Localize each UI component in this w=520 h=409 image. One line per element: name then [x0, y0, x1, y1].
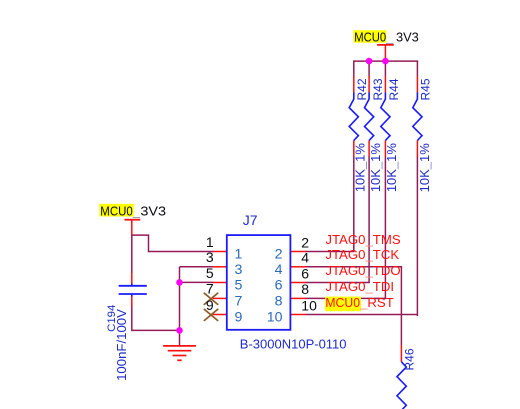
- svg-text:9: 9: [206, 297, 214, 313]
- svg-text:_: _: [385, 30, 394, 44]
- svg-text:MCU0: MCU0: [325, 295, 360, 310]
- svg-text:4: 4: [301, 250, 309, 266]
- svg-text:10K_1%: 10K_1%: [417, 143, 432, 193]
- svg-text:10K_1%: 10K_1%: [368, 143, 383, 193]
- svg-text:R44: R44: [387, 78, 401, 100]
- svg-text:7: 7: [206, 281, 214, 297]
- svg-text:B-3000N10P-0110: B-3000N10P-0110: [240, 337, 347, 352]
- svg-text:5: 5: [206, 265, 214, 281]
- svg-text:8: 8: [301, 281, 309, 297]
- svg-text:1: 1: [206, 234, 214, 250]
- svg-text:6: 6: [275, 278, 283, 294]
- svg-text:100nF/100V: 100nF/100V: [114, 309, 129, 381]
- svg-text:2: 2: [301, 234, 309, 250]
- svg-text:1: 1: [235, 247, 243, 263]
- svg-text:3: 3: [235, 262, 243, 278]
- svg-text:R46: R46: [402, 348, 416, 370]
- svg-text:JTAG0_TDO: JTAG0_TDO: [325, 263, 400, 278]
- svg-text:4: 4: [275, 262, 283, 278]
- svg-text:MCU0: MCU0: [100, 204, 132, 218]
- svg-text:JTAG0_TMS: JTAG0_TMS: [325, 232, 400, 247]
- svg-text:3: 3: [206, 249, 214, 265]
- svg-text:7: 7: [235, 294, 243, 310]
- svg-text:2: 2: [275, 247, 283, 263]
- svg-text:RST: RST: [367, 295, 393, 310]
- svg-text:3V3: 3V3: [140, 204, 166, 218]
- svg-text:10: 10: [267, 310, 283, 326]
- svg-text:8: 8: [275, 294, 283, 310]
- svg-text:J7: J7: [243, 212, 258, 228]
- svg-text:JTAG0_TDI: JTAG0_TDI: [325, 279, 394, 294]
- svg-text:5: 5: [235, 278, 243, 294]
- svg-text:R42: R42: [355, 78, 369, 100]
- svg-text:3V3: 3V3: [396, 30, 419, 44]
- svg-text:10: 10: [301, 297, 317, 313]
- svg-text:10K_1%: 10K_1%: [353, 143, 368, 193]
- svg-text:6: 6: [301, 265, 309, 281]
- svg-text:JTAG0_TCK: JTAG0_TCK: [325, 247, 399, 262]
- svg-text:R43: R43: [371, 78, 385, 100]
- svg-text:10K_1%: 10K_1%: [384, 143, 399, 193]
- svg-text:R45: R45: [419, 78, 433, 100]
- svg-text:9: 9: [235, 310, 243, 326]
- svg-text:MCU0: MCU0: [354, 30, 386, 44]
